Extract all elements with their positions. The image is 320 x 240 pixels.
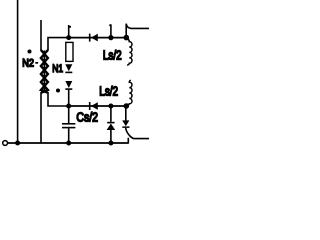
transformer core (43, 51, 45, 93)
junction dot capacitor bottom (66, 141, 71, 146)
svg-text:Ls/2: Ls/2 (99, 83, 118, 98)
wire N1 top lead (48, 38, 69, 51)
diode D_up (points up) mid to bottom (110, 106, 112, 122)
diode D1 (down) (65, 64, 72, 71)
junction dot diode bottom (108, 141, 113, 146)
transformer winding N1 (zigzag) (41, 50, 48, 93)
terminal (open circle) (3, 141, 8, 146)
polarity dot N2 (28, 50, 32, 54)
junction dot inductor bottom (124, 103, 130, 109)
diode D_top (points left) on top bus (89, 34, 91, 42)
junction dot bottom-left (15, 141, 20, 146)
junction dot inductor top (124, 35, 130, 41)
junction dot mid-right (108, 104, 113, 109)
switch S2 blade (bottom right) (126, 129, 149, 139)
wire left vertical bus (17, 0, 19, 143)
svg-text:N2: N2 (22, 57, 34, 69)
svg-text:N1: N1 (52, 63, 63, 75)
inductor Ls/2 top (127, 38, 132, 65)
capacitor Cs/2 (68, 106, 70, 123)
wire bottom bus (8, 142, 129, 144)
inductor Ls/2 bottom (126, 80, 132, 106)
junction dot resistor top (66, 35, 71, 40)
wire D2 to mid bus (68, 90, 70, 106)
transformer winding N2 (zigzag) (41, 50, 48, 93)
switch S1 hook (top right) (126, 24, 149, 36)
wire top bus (69, 37, 127, 39)
diode D_down (points down) to switch (125, 106, 127, 121)
wire N2 bottom lead (40, 92, 42, 143)
wire N1 bottom lead to mid bus (48, 92, 69, 106)
junction dot stub (108, 35, 113, 40)
wire N2 top lead (40, 20, 42, 51)
node stub N (110, 24, 112, 37)
node stub above resistor (68, 25, 70, 38)
junction dot capacitor top (66, 104, 71, 109)
polarity dot N1 (56, 89, 60, 93)
svg-text:Cs/2: Cs/2 (76, 109, 98, 124)
diode D2 (down) (65, 81, 72, 88)
resistor R (snubber) (66, 42, 73, 61)
diode D_mid (points left) on mid bus (89, 102, 91, 110)
svg-text:Ls/2: Ls/2 (103, 48, 122, 63)
wire mid bus (69, 105, 127, 107)
switch S2 fixed contact (127, 138, 129, 144)
